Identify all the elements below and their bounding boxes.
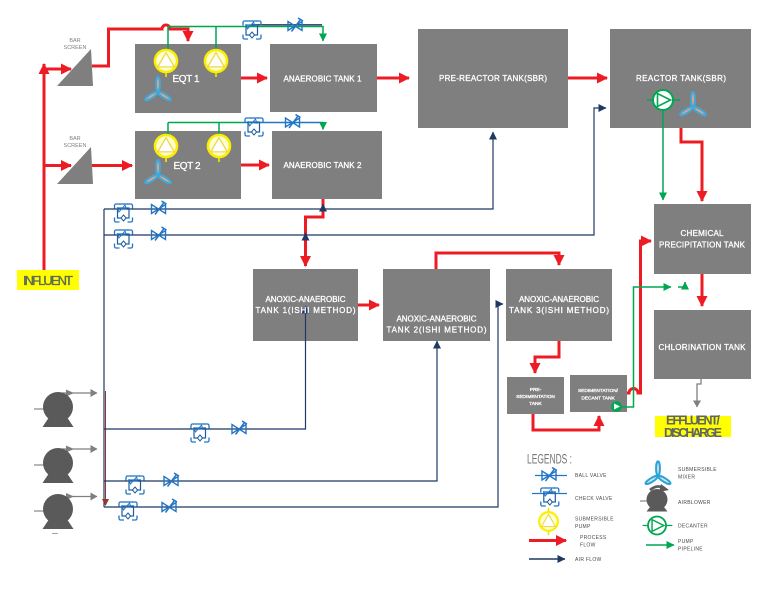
ball valve air line A (232, 421, 247, 435)
tank ANOXIC-ANAEROBIC TANK 2 (383, 269, 490, 341)
tank ANOXIC-ANAEROBIC TANK 3 (506, 269, 612, 341)
svg-text:BAR: BAR (69, 38, 80, 44)
submersible pump EQT1 a (155, 50, 177, 77)
check valve air line C (119, 502, 137, 520)
svg-text:PRE-REACTOR TANK(SBR): PRE-REACTOR TANK(SBR) (439, 74, 547, 83)
check valve green line row 1 (243, 21, 261, 39)
wire influent riser (red) (43, 64, 46, 270)
wire anaerobic tank 1 to pre-reactor tank (red) (377, 77, 409, 80)
wire bar screen 1 to EQT1 (red) (92, 25, 188, 66)
svg-text:PRE-: PRE- (530, 387, 542, 393)
svg-text:PUMP: PUMP (678, 539, 694, 545)
check valve air line A (191, 424, 209, 442)
wire sedimentation/decant to chemical precipitation tank (red) (627, 241, 641, 393)
legend decanter symbol (643, 517, 673, 535)
tank EQT2 (135, 131, 241, 199)
svg-text:ANOXIC-ANAEROBIC: ANOXIC-ANAEROBIC (266, 295, 346, 304)
ball valve green line row 1 (288, 18, 303, 32)
wire EQT2 pump pipeline middle part (blue) (243, 122, 323, 124)
ball valve air line 1 (152, 201, 167, 215)
airblower 1 (34, 392, 74, 427)
airblower 1 arrowhead mid (66, 390, 74, 397)
svg-text:SCREEN: SCREEN (64, 143, 87, 149)
wire air line 2 to reactor (navy) (104, 108, 606, 235)
wire airblower 3 arrow (gray) (62, 496, 97, 498)
wire air branch arrow on line 2 (navy) (305, 233, 307, 240)
node INFLUENT (17, 270, 79, 290)
svg-text:MIXER: MIXER (678, 475, 695, 481)
svg-text:AIR FLOW: AIR FLOW (575, 557, 602, 563)
tank CHEMICAL PRECIPITATION TANK (654, 204, 751, 274)
wire reactor decanter down to chemical precipitation (green) (662, 110, 664, 200)
submersible mixer EQT2 (144, 160, 171, 185)
svg-text:PROCESS: PROCESS (580, 535, 607, 541)
wire EQT1 pump pipeline to anaerobic tank 1 (green) (168, 27, 323, 42)
svg-text:EQT 2: EQT 2 (174, 161, 201, 172)
svg-text:PUMP: PUMP (575, 524, 591, 530)
bar screen 2 (57, 147, 93, 184)
svg-text:PRECIPITATION TANK: PRECIPITATION TANK (659, 241, 746, 250)
wire chemical precipitation to chlorination tank (red) (701, 274, 704, 306)
airblower 2 arrowhead mid (66, 446, 74, 453)
tank PRE-SEDIMENTATION TANK (507, 377, 564, 414)
tank PRE-REACTOR TANK(SBR) (418, 29, 568, 128)
wire decanter to chemical precipitation tank (green) (622, 287, 671, 407)
wire air header (navy) (103, 209, 105, 507)
svg-text:SUBMERSIBLE: SUBMERSIBLE (575, 517, 614, 523)
wire air line B to anoxic tank 2 (navy) (104, 341, 437, 481)
tank EQT1 (135, 44, 241, 113)
svg-text:SEDIMENTATION/: SEDIMENTATION/ (578, 388, 619, 394)
submersible pump EQT2 a (155, 135, 177, 162)
ball valve air line 2 (152, 227, 167, 241)
submersible pump EQT1 b (205, 50, 227, 77)
tank ANOXIC-ANAEROBIC TANK 1 (253, 269, 358, 341)
wire anoxic tank 3 to pre-sedimentation tank (red) (535, 341, 559, 373)
ball valve row 2 (286, 115, 301, 129)
check valve air line 2 (115, 230, 133, 248)
tank ANAEROBIC TANK 1 (270, 44, 377, 112)
wire air line A to anoxic tank 1 (navy) (104, 306, 306, 429)
legend air flow arrow (529, 558, 565, 560)
airblower 3 arrowhead mid (66, 493, 74, 500)
svg-text:SEDIMENTATION: SEDIMENTATION (516, 394, 555, 400)
legend airblower symbol (640, 484, 669, 512)
tank REACTOR TANK(SBR) (610, 29, 751, 128)
svg-text:ANAEROBIC TANK 2: ANAEROBIC TANK 2 (284, 161, 363, 170)
svg-text:PIPELINE: PIPELINE (678, 547, 703, 553)
node EFFLUENT/DISCHARGE (655, 416, 731, 437)
check valve air line B (126, 476, 144, 494)
wire reactor tank to chemical precipitation tank (red) (681, 128, 702, 201)
tank SEDIMENTATION/DECANT TANK (570, 375, 627, 412)
wire EQT2 pump pipeline left part (green) (168, 122, 243, 124)
tick below airblower 3 (52, 533, 58, 535)
svg-text:DECANTER: DECANTER (678, 524, 708, 530)
legend submersible mixer symbol (645, 461, 672, 485)
wire air branch into anaerobic tank 2 (navy) (322, 204, 324, 209)
wire anoxic tank 2 to anoxic tank 3 (red) (436, 253, 559, 269)
wire EQT1 pump riser 2 (green) (215, 27, 217, 51)
svg-text:AIRBLOWER: AIRBLOWER (678, 500, 711, 506)
wire pump pipeline corner into chemical precipitation bottom (green) (678, 282, 685, 287)
svg-text:ANOXIC-ANAEROBIC: ANOXIC-ANAEROBIC (519, 295, 599, 304)
wire EQT1 pump riser 1 (green) (167, 27, 169, 51)
airblower 3 (34, 494, 74, 529)
wire EQT2 pump riser 1 (green) (167, 123, 169, 135)
svg-text:REACTOR TANK(SBR): REACTOR TANK(SBR) (636, 74, 726, 83)
legend submersible pump symbol (539, 508, 558, 535)
ball valve air line C (162, 499, 177, 513)
wire air line 1 to pre-reactor (navy) (104, 132, 493, 209)
svg-text:TANK 3(ISHI METHOD): TANK 3(ISHI METHOD) (509, 306, 609, 315)
svg-text:BAR: BAR (69, 136, 80, 142)
tank CHLORINATION TANK (654, 310, 751, 379)
svg-text:EQT 1: EQT 1 (173, 74, 200, 85)
check valve air line 1 (115, 204, 133, 222)
submersible mixer EQT1 (144, 77, 171, 102)
decanter reactor tank (647, 90, 680, 110)
wire anaerobic tank 2 to anoxic tank 1 (red) (306, 199, 324, 266)
svg-text:BALL VALVE: BALL VALVE (575, 473, 607, 479)
wire influent to bar screen 1 (red) (44, 68, 71, 71)
svg-text:ANAEROBIC TANK 1: ANAEROBIC TANK 1 (284, 75, 363, 84)
decanter sedimentation/decant tank (611, 401, 622, 412)
svg-text:CHLORINATION TANK: CHLORINATION TANK (659, 343, 747, 352)
legend process flow arrow (529, 539, 566, 542)
svg-text:SUBMERSIBLE: SUBMERSIBLE (678, 467, 717, 473)
check valve row 2 (245, 118, 263, 136)
legend check valve symbol (532, 488, 567, 506)
wire airblower 2 arrow (gray) (62, 448, 97, 450)
tank ANAEROBIC TANK 2 (272, 131, 382, 199)
wire EQT2 pump pipeline arrow into anaerobic tank 2 (green) (322, 123, 324, 130)
wire pre-sedimentation to sedimentation/decant tank (red) (533, 414, 599, 430)
svg-text:LEGENDS :: LEGENDS : (527, 452, 572, 467)
svg-text:CHEMICAL: CHEMICAL (681, 229, 725, 238)
wire EQT2 to anaerobic tank 2 (red) (241, 164, 269, 167)
svg-text:INFLUENT: INFLUENT (23, 273, 73, 288)
wire sludge header (dark red) (105, 391, 107, 505)
wire air line C to anoxic tank 3 (navy) (104, 304, 503, 507)
airblower 2 (34, 448, 74, 483)
ball valve air line B (164, 473, 179, 487)
wire airblower 1 arrow (gray) (62, 392, 97, 394)
wire EQT1 to anaerobic tank 1 (red) (241, 77, 267, 80)
wire bar screen 2 to EQT2 (red) (92, 164, 132, 167)
wire pre-reactor to reactor tank (red) (568, 77, 607, 80)
svg-text:TANK: TANK (529, 401, 542, 407)
svg-text:TANK 2(ISHI METHOD): TANK 2(ISHI METHOD) (387, 326, 487, 335)
svg-text:TANK 1(ISHI METHOD): TANK 1(ISHI METHOD) (256, 306, 356, 315)
svg-text:CHECK VALVE: CHECK VALVE (575, 496, 613, 502)
submersible mixer reactor tank (679, 92, 706, 117)
bar screen 1 (57, 49, 93, 86)
submersible pump EQT2 b (208, 135, 230, 162)
svg-text:SCREEN: SCREEN (64, 45, 87, 51)
svg-text:DISCHARGE: DISCHARGE (664, 426, 722, 440)
wire air overlay on EQT1 pump pipeline (navy) (252, 24, 322, 26)
wire anoxic tank 1 to anoxic tank 2 (red) (358, 304, 379, 307)
wire EQT2 pump riser 2 (green) (218, 123, 220, 135)
legend ball valve symbol (535, 468, 567, 482)
wire chlorination tank to effluent (gray) (697, 379, 701, 407)
svg-text:ANOXIC-ANAEROBIC: ANOXIC-ANAEROBIC (397, 315, 477, 324)
svg-text:FLOW: FLOW (580, 543, 596, 549)
wire influent to bar screen 2 (red) (44, 164, 71, 167)
svg-text:DECANT TANK: DECANT TANK (581, 396, 615, 402)
legend pump pipeline arrow (646, 544, 674, 546)
